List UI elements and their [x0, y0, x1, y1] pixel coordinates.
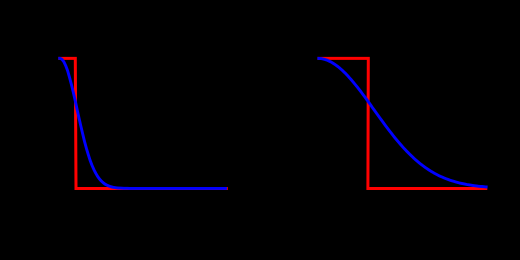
left panel: blue gaussian curve: [58, 58, 227, 188]
right panel: blue gaussian curve: [317, 58, 487, 187]
right panel: red ideal step filter: [317, 58, 487, 188]
left panel: red ideal step filter: [58, 58, 228, 188]
